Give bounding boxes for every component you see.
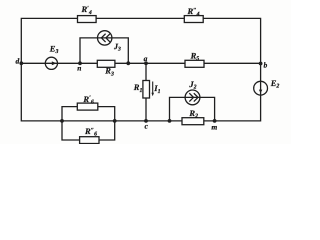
svg-text:a: a — [144, 54, 148, 63]
svg-text:d: d — [16, 56, 20, 65]
svg-text:J2: J2 — [188, 79, 196, 91]
svg-text:c: c — [145, 121, 149, 130]
svg-text:I1: I1 — [153, 83, 160, 95]
svg-text:E3: E3 — [49, 43, 59, 55]
svg-text:b: b — [264, 61, 268, 70]
svg-text:R5: R5 — [190, 51, 200, 63]
svg-text:n: n — [77, 64, 81, 73]
svg-text:R2: R2 — [188, 108, 198, 120]
svg-text:R″6: R″6 — [84, 126, 97, 138]
svg-text:J3: J3 — [113, 42, 121, 53]
svg-text:R″4: R″4 — [187, 6, 200, 18]
svg-text:R′4: R′4 — [81, 4, 92, 16]
svg-text:R1: R1 — [133, 82, 143, 94]
svg-text:R′6: R′6 — [82, 94, 93, 106]
svg-text:E2: E2 — [270, 78, 280, 90]
svg-text:m: m — [211, 122, 217, 131]
